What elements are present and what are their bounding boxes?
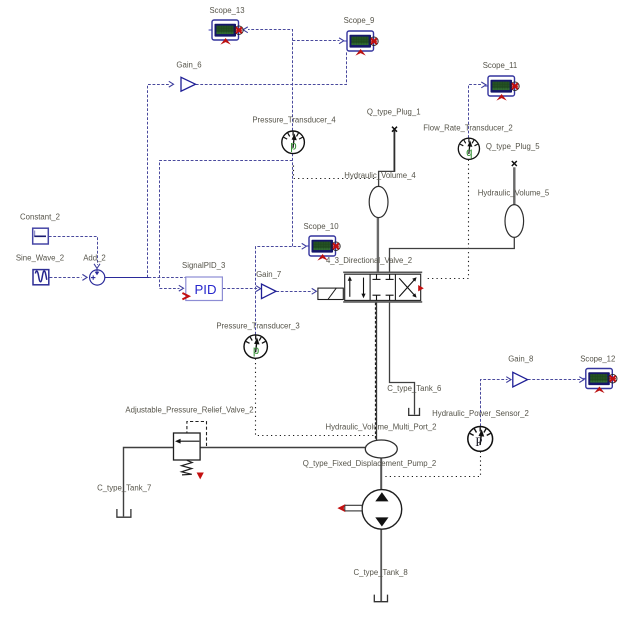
- right box crossed arrows: [399, 280, 414, 297]
- svg-text:4_3_Directional_Valve_2: 4_3_Directional_Valve_2: [326, 256, 412, 265]
- arrow into Gain_6: [169, 81, 174, 87]
- arrowheads on signal wires: [82, 27, 584, 383]
- svg-text:Scope_11: Scope_11: [483, 61, 518, 70]
- hydraulic volume Hydraulic_Volume_5: [505, 205, 524, 238]
- sensor Hydraulic_Power_Sensor_2: [468, 427, 493, 452]
- svg-text:C_type_Tank_8: C_type_Tank_8: [354, 568, 408, 577]
- gain Gain_7: [262, 284, 277, 299]
- arrow into valve solenoid: [312, 288, 317, 294]
- tank C_type_Tank_7: [117, 509, 131, 517]
- valve Adjustable_Pressure_Relief_Valve_2: [174, 433, 204, 479]
- arrow into Gain_8: [506, 377, 511, 383]
- svg-text:Scope_9: Scope_9: [344, 16, 375, 25]
- wire pump down to C_type_Tank_8: [380, 529, 382, 601]
- tap Flow_Rate_Transducer_2 to valve port: [425, 160, 469, 279]
- pump Q_type_Fixed_Displacement_Pump_2: [337, 490, 401, 530]
- svg-text:Q_type_Plug_1: Q_type_Plug_1: [367, 107, 421, 116]
- svg-text:Hydraulic_Power_Sensor_2: Hydraulic_Power_Sensor_2: [432, 409, 529, 418]
- wire Gain_8 out to Scope_12: [528, 379, 581, 381]
- svg-text:PID: PID: [195, 282, 217, 297]
- sensor Pressure_Transducer_4: [282, 131, 305, 154]
- valve 4_3_Directional_Valve_2: [318, 272, 424, 302]
- svg-text:Gain_7: Gain_7: [256, 270, 281, 279]
- arrow into Scope_11: [481, 82, 486, 88]
- tank C_type_Tank_8: [374, 595, 387, 602]
- constant source Constant_2: [33, 228, 49, 244]
- sine source Sine_Wave_2: [33, 270, 49, 285]
- sensor Pressure_Transducer_3: [244, 335, 267, 358]
- wire pump to multiport volume: [380, 458, 382, 490]
- svg-text:Q_type_Fixed_Displacement_Pump: Q_type_Fixed_Displacement_Pump_2: [303, 459, 437, 468]
- hydraulic volume Hydraulic_Volume_Multi_Port_2: [365, 440, 397, 458]
- svg-text:Scope_12: Scope_12: [580, 354, 615, 363]
- scope Scope_12: [582, 369, 617, 394]
- controller SignalPID_3: [182, 277, 222, 301]
- wire Q_type_Plug_1 down to Hydraulic_Volume_4: [393, 131, 395, 172]
- wire PID out to Gain_7: [223, 288, 258, 290]
- gain Gain_8: [513, 372, 528, 387]
- left box arrows: [349, 279, 351, 297]
- gain Gain_6: [181, 77, 196, 91]
- wire Hydraulic_Power_Sensor_2 to Gain_8: [481, 380, 508, 427]
- svg-text:Gain_6: Gain_6: [176, 60, 201, 69]
- svg-text:P: P: [475, 434, 482, 449]
- scope Scope_13: [209, 20, 244, 45]
- svg-text:Sine_Wave_2: Sine_Wave_2: [16, 253, 64, 262]
- svg-text:Scope_10: Scope_10: [303, 222, 339, 231]
- solenoid actuator: [318, 288, 343, 299]
- svg-text:SignalPID_3: SignalPID_3: [182, 261, 225, 270]
- plug Q_type_Plug_5 X: [512, 161, 517, 166]
- scope Scope_10: [306, 236, 341, 261]
- arrow into Scope_10: [302, 243, 307, 249]
- wire Pressure_Transducer_4 down to Scope_10 line: [292, 153, 294, 246]
- tap Hydraulic_Power_Sensor_2 to pump line: [383, 452, 481, 477]
- pilot dashed line parallel to P port line: [374, 303, 376, 440]
- svg-text:Gain_8: Gain_8: [508, 355, 533, 364]
- wire Add_2 out solid segment: [105, 277, 149, 279]
- tap Pressure_Transducer_3 to Hydraulic_Volume_Multi_Port_2: [256, 359, 375, 436]
- red port marker: [418, 285, 424, 291]
- wire Q_type_Plug_5 down to Hydraulic_Volume_5 (thick): [513, 167, 515, 205]
- wire Pressure_Transducer_3 up to Scope_10: [256, 247, 303, 335]
- wire Flow_Rate_Transducer_2 to Scope_11: [469, 85, 483, 138]
- wire valve to Hydraulic_Volume_5: [390, 238, 515, 272]
- arrow into Scope_13 (pointing left): [243, 27, 248, 33]
- plug Q_type_Plug_1 X: [392, 127, 397, 132]
- wire Gain_7 out to valve solenoid: [276, 291, 312, 293]
- wire Hydraulic_Volume_4 to valve (thick): [377, 217, 379, 272]
- svg-text:Flow_Rate_Transducer_2: Flow_Rate_Transducer_2: [423, 124, 512, 133]
- svg-text:Constant_2: Constant_2: [20, 212, 60, 221]
- svg-text:Hydraulic_Volume_5: Hydraulic_Volume_5: [478, 189, 550, 198]
- svg-text:Pressure_Transducer_3: Pressure_Transducer_3: [216, 321, 299, 330]
- svg-text:Adjustable_Pressure_Relief_Val: Adjustable_Pressure_Relief_Valve_2: [125, 406, 253, 415]
- tap Pressure_Transducer_4 to Hydraulic_Volume_4 line: [294, 166, 376, 179]
- wire feedback branch to PID input 2: [160, 161, 293, 289]
- wire Gain_6 out to Scope_9 bottom: [196, 51, 347, 85]
- wire Pressure_Transducer_4 up to Scope_13: [248, 30, 293, 131]
- arrow into PID input 2: [179, 285, 184, 291]
- arrow into Add_2 left: [82, 274, 87, 280]
- sensor Flow_Rate_Transducer_2: [458, 138, 479, 159]
- svg-text:p: p: [290, 141, 296, 153]
- middle box blocked ports: [373, 274, 394, 300]
- svg-text:C_type_Tank_7: C_type_Tank_7: [97, 484, 151, 493]
- wire Constant_2 to Add_2: [49, 237, 98, 266]
- wire branch to Scope_9: [293, 40, 340, 42]
- wire valve P port down to Hydraulic_Volume_Multi_Port_2: [376, 302, 378, 441]
- svg-text:Add_2: Add_2: [83, 253, 106, 262]
- wire Add_2 out to PID input 1: [149, 277, 186, 279]
- scope Scope_9: [344, 31, 379, 56]
- arrow into Gain_7: [256, 286, 261, 292]
- scope Scope_11: [485, 76, 520, 101]
- svg-text:p: p: [253, 345, 259, 357]
- svg-text:C_type_Tank_6: C_type_Tank_6: [387, 384, 441, 393]
- arrow into Scope_9: [339, 38, 344, 44]
- hydraulic volume Hydraulic_Volume_4: [369, 186, 388, 217]
- svg-text:Scope_13: Scope_13: [209, 6, 244, 15]
- wire Sine_Wave_2 to Add_2: [50, 277, 82, 279]
- svg-text:q: q: [466, 147, 472, 159]
- wire multiport volume left to relief valve and C_type_Tank_7: [124, 448, 366, 517]
- svg-text:Hydraulic_Volume_Multi_Port_2: Hydraulic_Volume_Multi_Port_2: [326, 423, 437, 432]
- wire riser to Gain_6: [148, 85, 170, 278]
- summing junction Add_2: [90, 268, 105, 285]
- arrow into Add_2 top: [94, 264, 100, 269]
- wire valve T port to C_type_Tank_6: [390, 302, 415, 415]
- tank C_type_Tank_6: [409, 408, 420, 416]
- pilot line of Adjustable_Pressure_Relief_Valve_2: [187, 422, 207, 447]
- svg-text:Pressure_Transducer_4: Pressure_Transducer_4: [252, 115, 336, 124]
- svg-text:Q_type_Plug_5: Q_type_Plug_5: [486, 142, 540, 151]
- svg-text:Hydraulic_Volume_4: Hydraulic_Volume_4: [344, 171, 416, 180]
- arrow into Scope_12: [579, 377, 584, 383]
